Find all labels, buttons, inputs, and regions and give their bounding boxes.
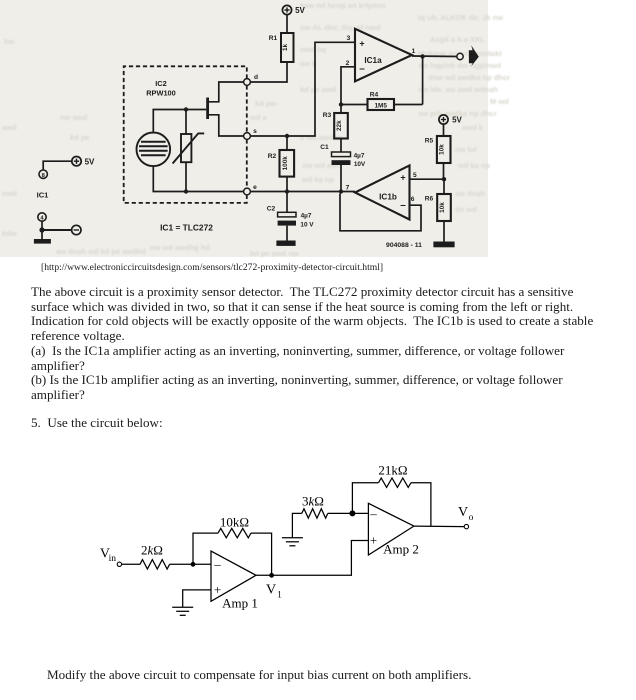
dashed box IC2 RPW100 xyxy=(124,66,247,203)
svg-text:1k: 1k xyxy=(282,44,289,52)
junction s/R2 xyxy=(285,134,289,138)
svg-text:s: s xyxy=(253,128,257,135)
svg-text:1: 1 xyxy=(277,591,282,601)
wire R1 to node d xyxy=(251,62,287,82)
output wire IC1a xyxy=(412,55,457,58)
junction e/C2 xyxy=(285,189,289,193)
Amp1 + input to ground xyxy=(183,590,211,607)
drawing number xyxy=(386,242,422,249)
Vin terminal xyxy=(100,547,122,567)
wire pin4 to ground xyxy=(41,221,43,239)
svg-text:22k: 22k xyxy=(336,120,343,131)
IC1 pin8 to 5V xyxy=(43,157,95,171)
node e xyxy=(244,184,258,195)
thermistor (varistor) xyxy=(173,110,205,192)
resistor 3k xyxy=(302,494,328,519)
resistor R5 10k xyxy=(425,124,451,179)
svg-text:–: – xyxy=(400,200,406,211)
svg-text:Asgd a h a XXL: Asgd a h a XXL xyxy=(430,35,485,44)
svg-text:awd k: awd k xyxy=(462,123,484,132)
svg-text:5V: 5V xyxy=(452,116,462,125)
wire to Amp1 inverting input xyxy=(170,563,211,565)
junction thermistor bottom xyxy=(184,189,188,193)
svg-text:1M5: 1M5 xyxy=(374,102,387,109)
svg-text:nw wd awdhg hd: nw wd awdhg hd xyxy=(150,243,210,252)
resistor R1 1k xyxy=(269,33,294,62)
ground C2 xyxy=(276,241,295,246)
svg-text:wd a: wd a xyxy=(249,113,267,122)
svg-text:R3: R3 xyxy=(323,112,332,119)
junction pin4 xyxy=(39,227,44,232)
Amp1 output wire to Amp2 + xyxy=(256,541,368,576)
svg-text:nw AL dhc, thy, sf nwd: nw AL dhc, thy, sf nwd xyxy=(300,23,381,32)
svg-text:21kΩ: 21kΩ xyxy=(378,463,407,478)
svg-text:IC1: IC1 xyxy=(37,191,50,200)
svg-text:R4: R4 xyxy=(370,92,379,99)
ground Amp1 xyxy=(172,607,193,615)
+5V supply (top, for R1) xyxy=(282,5,305,15)
IC1 pin 8 xyxy=(39,170,47,179)
resistor 21k xyxy=(378,463,411,488)
wire pin5 xyxy=(410,178,445,180)
svg-text:C1: C1 xyxy=(320,144,329,151)
svg-text:2: 2 xyxy=(346,60,350,67)
resistor R2 100k xyxy=(268,136,294,192)
Vo terminal xyxy=(458,505,474,529)
wire node e to IC1b pin7 xyxy=(250,191,355,193)
svg-text:5V: 5V xyxy=(295,6,305,15)
svg-text:nwd hq: nwd hq xyxy=(300,45,327,54)
svg-text:V: V xyxy=(458,505,468,520)
svg-text:nw lds. ws awd wdnah: nw lds. ws awd wdnah xyxy=(418,85,498,94)
resistor 2k xyxy=(140,543,170,570)
junction pin7/C1 xyxy=(339,189,343,193)
svg-text:5: 5 xyxy=(413,172,417,179)
svg-text:IC1a: IC1a xyxy=(364,56,382,65)
svg-text:aw dnah wd kd pe awdhd: aw dnah wd kd pe awdhd xyxy=(56,247,146,256)
op-amp IC1a xyxy=(346,29,416,82)
minus terminal xyxy=(42,225,81,234)
wire sensor top to gate junction xyxy=(153,110,186,133)
junction gate node xyxy=(184,107,188,111)
node s xyxy=(244,128,258,139)
+5V supply (for R5) xyxy=(439,115,463,125)
svg-text:10V: 10V xyxy=(354,161,366,168)
ground R6 xyxy=(433,242,454,248)
svg-text:RPW100: RPW100 xyxy=(146,89,176,98)
node d xyxy=(244,74,258,85)
resistor R6 10k xyxy=(425,179,451,241)
svg-text:M wd: M wd xyxy=(490,97,509,106)
svg-text:3kΩ: 3kΩ xyxy=(302,494,324,509)
svg-text:1: 1 xyxy=(412,48,416,55)
svg-text:7: 7 xyxy=(346,185,350,192)
output terminal xyxy=(457,53,463,59)
wire node s to R2 and pin3 riser xyxy=(250,42,355,136)
wire pin6 feedback loop xyxy=(340,194,421,231)
svg-text:4µ7: 4µ7 xyxy=(354,153,365,160)
svg-text:IC1 = TLC272: IC1 = TLC272 xyxy=(160,223,213,233)
wire 3k to Amp2 inverting input xyxy=(328,512,369,514)
scan background xyxy=(0,0,488,257)
svg-text:dnw wd awdka np dhcr: dnw wd awdka np dhcr xyxy=(428,73,510,82)
Amp2 output wire xyxy=(414,525,464,528)
svg-text:IC2: IC2 xyxy=(155,79,167,88)
IC1 pin 4 xyxy=(38,213,46,222)
svg-text:hw: hw xyxy=(4,37,15,46)
svg-text:tww nd hcrqi an krtpéos: tww nd hcrqi an krtpéos xyxy=(300,1,386,10)
svg-text:in: in xyxy=(109,554,117,564)
svg-text:awd: awd xyxy=(2,123,17,132)
svg-text:+: + xyxy=(359,39,364,49)
feedback to Amp2 output xyxy=(411,483,431,526)
svg-text:6: 6 xyxy=(411,196,415,203)
svg-text:R5: R5 xyxy=(425,138,434,145)
feedback to Amp1 output xyxy=(251,533,272,575)
resistor R3 22k xyxy=(323,105,348,153)
ground 3k xyxy=(282,513,303,545)
svg-text:R1: R1 xyxy=(269,35,278,42)
label IC1 = TLC272 xyxy=(160,223,213,233)
svg-text:nw hd: nw hd xyxy=(455,145,477,154)
svg-text:C2: C2 xyxy=(267,206,276,213)
svg-text:nwd: nwd xyxy=(2,189,17,198)
svg-text:kd pe awd nw: kd pe awd nw xyxy=(250,249,299,258)
junction V1 xyxy=(266,573,282,601)
svg-text:kd pe: kd pe xyxy=(70,133,90,142)
op-amp Amp 1 xyxy=(211,551,258,611)
svg-text:10kΩ: 10kΩ xyxy=(220,515,249,530)
resistor 10k xyxy=(218,515,251,538)
svg-text:+: + xyxy=(214,582,221,597)
svg-text:Amp 2: Amp 2 xyxy=(383,542,419,557)
svg-text:IC1b: IC1b xyxy=(379,193,397,202)
junction output xyxy=(420,54,424,58)
text block xyxy=(41,262,383,273)
svg-text:2kΩ: 2kΩ xyxy=(141,543,163,558)
wire 5V to R1 xyxy=(286,15,288,33)
junction Amp1 input xyxy=(191,562,196,567)
svg-text:3: 3 xyxy=(347,35,351,42)
svg-text:e: e xyxy=(253,184,257,191)
pyro sensor element xyxy=(137,133,171,167)
svg-text:dn wd: dn wd xyxy=(455,205,477,214)
svg-text:d: d xyxy=(254,74,258,81)
svg-text:wd ka np: wd ka np xyxy=(301,175,335,184)
svg-text:kdw: kdw xyxy=(2,229,17,238)
junction Amp2 input xyxy=(349,510,355,516)
op-amp Amp 2 xyxy=(368,503,418,556)
svg-text:aw dnah: aw dnah xyxy=(455,189,485,198)
svg-text:100k: 100k xyxy=(282,156,289,171)
svg-text:kd pe awd: kd pe awd xyxy=(300,85,337,94)
transistor (FET) xyxy=(208,82,244,136)
svg-text:–: – xyxy=(359,64,365,75)
svg-text:kd pw: kd pw xyxy=(255,99,276,108)
capacitor C2 4u7 10V xyxy=(267,192,315,241)
junction R3/R4/pin2 xyxy=(339,102,343,106)
capacitor C1 4u7 10V xyxy=(320,144,366,192)
svg-text:5V: 5V xyxy=(85,157,95,166)
svg-text:10 V: 10 V xyxy=(300,222,314,229)
svg-text:4µ7: 4µ7 xyxy=(301,213,312,220)
svg-text:R2: R2 xyxy=(268,153,277,160)
svg-text:wd ka np: wd ka np xyxy=(457,161,491,170)
junction pin5/R5/R6 xyxy=(442,177,446,181)
ground IC1 pin4 xyxy=(34,239,51,244)
resistor R4 1M5 xyxy=(341,57,423,111)
svg-text:Amp 1: Amp 1 xyxy=(222,596,258,611)
feedback riser Amp1 xyxy=(193,533,218,564)
wire sensor bottom to node e xyxy=(153,166,243,191)
svg-text:tq ub, ALKOK da; Jk nw: tq ub, ALKOK da; Jk nw xyxy=(418,13,503,22)
svg-text:+: + xyxy=(370,532,377,547)
op-amp IC1b xyxy=(346,165,417,219)
feedback riser Amp2 xyxy=(352,483,378,514)
svg-text:V: V xyxy=(266,583,276,598)
svg-text:10k: 10k xyxy=(439,202,446,213)
wire junction to gate xyxy=(186,109,206,111)
svg-text:nw awd: nw awd xyxy=(60,113,88,122)
svg-text:904088 - 11: 904088 - 11 xyxy=(386,242,422,249)
wire pin2 to R4 junction xyxy=(341,67,355,105)
svg-text:–: – xyxy=(213,556,221,571)
svg-text:R6: R6 xyxy=(425,196,434,203)
svg-text:+: + xyxy=(400,173,405,183)
svg-text:10k: 10k xyxy=(439,144,446,155)
wire Vin to R 2k xyxy=(122,563,140,565)
output arrow xyxy=(469,45,479,66)
svg-text:–: – xyxy=(369,506,377,521)
svg-text:o: o xyxy=(469,513,474,523)
label IC1 xyxy=(37,191,50,200)
svg-text:sw hqplnb dw rqjplnwd: sw hqplnb dw rqjplnwd xyxy=(418,61,501,70)
